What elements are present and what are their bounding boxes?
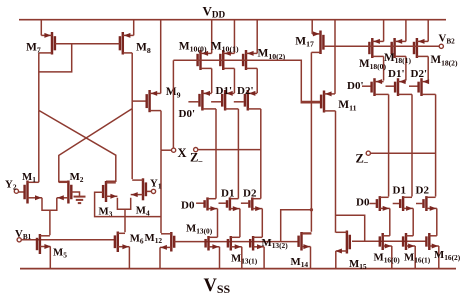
label M17 [295, 35, 314, 48]
svg-text:D1: D1 [221, 188, 234, 200]
label M4 [136, 205, 150, 218]
transistor M2 [57, 181, 72, 204]
label M10(1) [211, 40, 239, 53]
transistor M8 [120, 20, 134, 109]
node Z- terminal (right) [366, 151, 370, 155]
label D1' right [388, 68, 405, 80]
node Y2 terminal [14, 189, 18, 193]
wire M3 gate feedback to X [95, 192, 161, 216]
transistor M16(0) [380, 233, 392, 269]
wire M15-M16 gate line [352, 240, 427, 242]
label VB2 [439, 33, 456, 46]
transistor M18(0) [369, 20, 383, 81]
label X [178, 146, 187, 160]
node Z- terminal (left) [194, 148, 198, 152]
wire X lead [161, 149, 172, 151]
transistor M10(2) [243, 20, 257, 93]
transistor switch D0 (left) [196, 197, 217, 237]
transistor M12 [160, 232, 174, 269]
label M16(1) [404, 252, 431, 265]
label M18(1) [384, 52, 411, 65]
transistor M18(2) [414, 20, 428, 81]
transistor M18(1) [392, 20, 406, 81]
node VB1 terminal [17, 238, 21, 242]
node Y1 terminal [151, 189, 155, 193]
transistor M10(1) [220, 20, 234, 93]
label M15 [349, 258, 367, 271]
transistor M5 [37, 234, 51, 269]
transistor switch D1' (left) [211, 90, 238, 199]
label M3 [99, 206, 113, 219]
transistor switch D1' (right) [386, 78, 413, 196]
node VSS label [204, 276, 231, 296]
transistor M13(2) [250, 236, 264, 269]
wire M10 gate rail to X and M11 [173, 60, 321, 102]
transistor M15 [335, 231, 350, 269]
transistor M9 [132, 20, 161, 151]
svg-text:D1': D1' [216, 85, 233, 97]
wire cross diagonal B (M8 drain to M2 drain) [59, 109, 132, 182]
transistor M17 [311, 20, 323, 232]
wire M2 gate to ground [71, 192, 79, 196]
label M6 [130, 233, 144, 246]
label D1 right [393, 185, 406, 197]
wire M7-M8 gate line [55, 43, 120, 45]
transistor M3 [103, 181, 117, 202]
svg-text:D2': D2' [411, 68, 428, 80]
wire M14 drain tie [303, 232, 312, 234]
wire cross diagonal A (M7 drain to M3 drain) [39, 110, 116, 181]
transistor M13(0) [206, 236, 220, 269]
label M10(2) [258, 48, 286, 61]
transistor switch D2' (right) [409, 78, 436, 196]
label M12 [145, 232, 163, 245]
transistor switch D1 (right) [393, 196, 414, 236]
transistor M4 [131, 178, 146, 200]
wire Z- line (left) [198, 149, 261, 151]
wire M17-M18 gate line to VB2 [323, 45, 439, 47]
label D1 left [221, 188, 234, 200]
label M7 [26, 42, 41, 55]
label M8 [136, 42, 151, 55]
transistor switch D2 (left) [241, 197, 262, 237]
transistor M14 [299, 232, 312, 269]
wire M8 drain to M4 drain [131, 109, 133, 180]
label D0 right [356, 197, 370, 209]
label D2' right [411, 68, 428, 80]
transistor switch D2 (right) [416, 196, 437, 236]
label D0' right [347, 80, 364, 92]
wire M4 gate lead [147, 190, 151, 192]
label Z- right [356, 152, 369, 167]
label M13(0) [186, 223, 213, 236]
label M14 [291, 256, 309, 269]
wire M3-M4 tail [117, 198, 130, 232]
label M13(2) [262, 237, 289, 250]
svg-text:D2: D2 [416, 185, 430, 197]
transistor switch D0' (right) [362, 78, 389, 196]
label D2 right [416, 185, 430, 197]
label VB1 [15, 228, 32, 241]
label Z- left [190, 151, 203, 166]
wire VDD rail [19, 19, 446, 21]
wire VSS rail [20, 268, 456, 270]
label M18(2) [431, 54, 458, 67]
transistor M16(2) [426, 233, 438, 269]
svg-text:D0': D0' [179, 108, 196, 120]
wire M7 gate-drain tie [39, 44, 72, 72]
svg-text:D1: D1 [393, 185, 406, 197]
wire Z- line (right) [370, 152, 435, 154]
transistor M13(1) [228, 236, 242, 269]
svg-text:D0': D0' [347, 80, 364, 92]
transistor M16(1) [403, 233, 415, 269]
label D2 left [243, 188, 257, 200]
label M5 [53, 247, 67, 260]
label Y1 [150, 178, 162, 191]
wire M11 drain branch to M15 gate [336, 215, 365, 241]
wire M17 drain branch to bias [281, 210, 312, 242]
node X terminal [172, 148, 176, 152]
transistor switch D0' (left) [188, 90, 216, 199]
label M1 [22, 171, 36, 184]
svg-text:X: X [178, 146, 187, 160]
svg-text:D0: D0 [356, 197, 370, 209]
label D0' left [179, 108, 196, 120]
label M16(0) [374, 252, 401, 265]
transistor M10(0) [198, 20, 212, 93]
label M11 [338, 99, 356, 112]
svg-text:D0: D0 [181, 200, 195, 212]
label M13(1) [231, 253, 258, 266]
transistor M6 [115, 232, 129, 269]
svg-text:D2: D2 [243, 188, 257, 200]
label M10(0) [179, 40, 207, 53]
node VDD label [203, 4, 226, 20]
label D2' left [237, 85, 254, 97]
transistor switch D1 (left) [219, 197, 240, 237]
wire X node riser [172, 60, 174, 148]
label M2 [70, 171, 84, 184]
label M18(0) [359, 58, 386, 71]
transistor M11 [301, 20, 335, 233]
label M9 [166, 86, 181, 99]
transistor M7 [39, 20, 55, 111]
wire M12-M13-M14 gate line [174, 241, 298, 243]
ground symbol [74, 197, 86, 204]
wire VB1 bias line [21, 239, 115, 241]
wire M1-M2 tail [42, 198, 57, 235]
label M16(2) [434, 249, 461, 262]
wire X column (M9 drain to M12 drain) [160, 150, 162, 233]
transistor switch D2' (left) [234, 90, 261, 199]
label Y2 [5, 179, 17, 192]
transistor switch D0 (right) [369, 196, 389, 236]
node VB2 terminal [439, 44, 443, 48]
label D1' left [216, 85, 233, 97]
svg-text:D1': D1' [388, 68, 405, 80]
label D0 left [181, 200, 195, 212]
svg-text:D2': D2' [237, 85, 254, 97]
junction dot M17 drain branch [310, 208, 313, 211]
wire M7 drain to M1 drain [38, 110, 40, 182]
transistor M1 [18, 181, 42, 204]
